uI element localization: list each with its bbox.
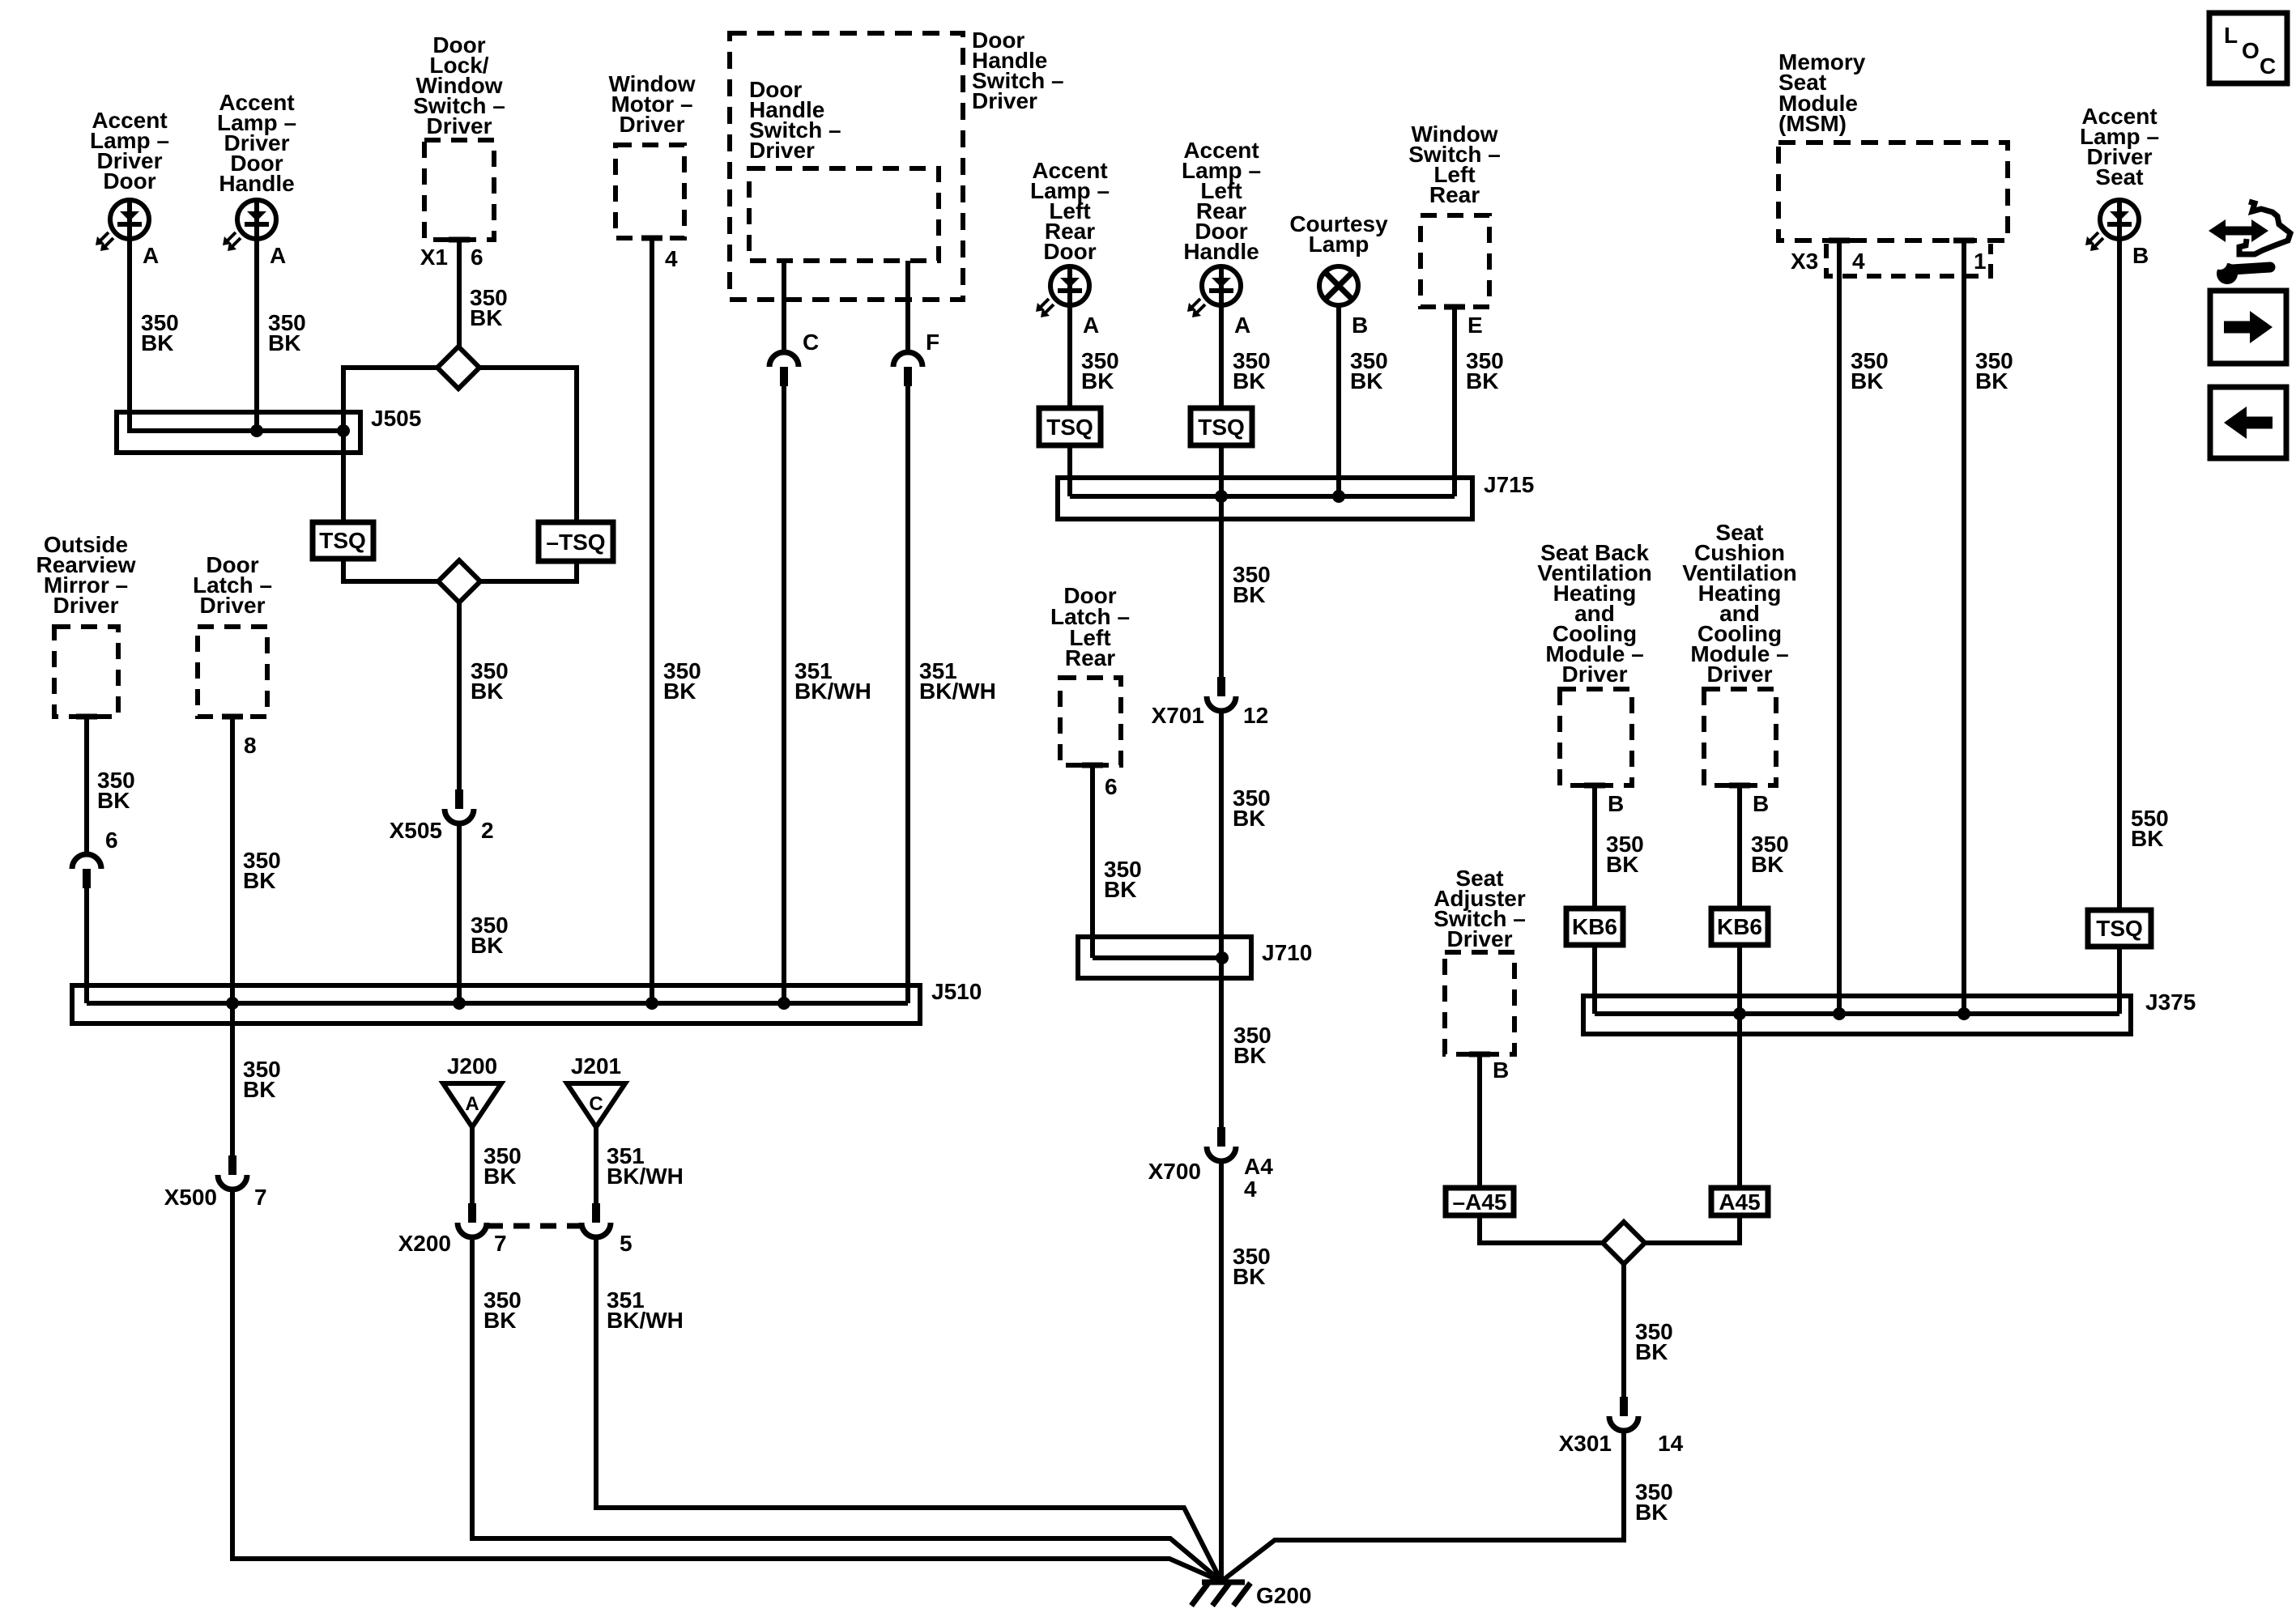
ground hatch 1 (1191, 1583, 1208, 1606)
svg-text:Seat: Seat (2095, 164, 2143, 189)
wire TSQ right to J375 (2117, 947, 2122, 1014)
fuse box A45 (1711, 1188, 1768, 1215)
svg-text:C: C (589, 1093, 603, 1115)
svg-text:6: 6 (1105, 774, 1118, 799)
splice diamond S505b (438, 560, 480, 602)
svg-text:TSQ: TSQ (2096, 916, 2143, 941)
inline connector mirror 6 (72, 854, 101, 869)
connector J505 box (117, 412, 360, 453)
LOC legend box (2209, 13, 2287, 83)
wire A45 to diamond3 (1645, 1215, 1740, 1243)
svg-text:Driver: Driver (1447, 926, 1513, 951)
svg-text:BK: BK (1233, 1264, 1265, 1289)
seat cushion ventilation module dashed box (1704, 689, 1776, 785)
inline connector X505 (455, 789, 463, 809)
svg-text:BK: BK (471, 933, 503, 958)
svg-text:5: 5 (620, 1231, 633, 1256)
svg-text:J201: J201 (571, 1053, 621, 1079)
fuse box TSQ left (313, 522, 373, 559)
wire diamond2 to X505 (457, 602, 462, 789)
wire adjuster to -A45 (1477, 1054, 1482, 1188)
junction dot J510/C (777, 997, 790, 1010)
junction dot J510/X505 (453, 997, 466, 1010)
svg-text:BK: BK (1975, 368, 2008, 394)
wire DL5 to TSQ (2117, 239, 2122, 910)
svg-text:BK: BK (1233, 806, 1265, 831)
svg-text:Handle: Handle (219, 171, 294, 196)
wire mirror to J510 (84, 888, 89, 1003)
svg-text:Door: Door (103, 168, 155, 194)
wire TSQ to diamond2 (343, 559, 438, 581)
wire mirror-6 upper (84, 717, 89, 855)
MSM X3 connector dashed box (1826, 244, 1991, 276)
J710 bus wire (1093, 955, 1222, 960)
wire motor-4 to J510 (650, 238, 654, 1003)
svg-text:(MSM): (MSM) (1778, 111, 1847, 136)
svg-text:BK/WH: BK/WH (607, 1164, 684, 1189)
wire seat cushion to KB6 (1737, 785, 1742, 908)
pin tick latch LR-6 (1082, 763, 1103, 768)
svg-text:J200: J200 (447, 1053, 497, 1079)
svg-text:J715: J715 (1484, 472, 1534, 497)
svg-text:B: B (2132, 243, 2149, 268)
svg-text:BK: BK (1851, 368, 1883, 394)
svg-text:6: 6 (105, 828, 118, 853)
connector J715 box (1058, 478, 1472, 519)
junction dot J505/DL2 (250, 424, 263, 437)
wire TSQ DL4 to J715 (1219, 445, 1224, 496)
junction dot J715/DL4 (1215, 490, 1228, 503)
svg-text:B: B (1352, 313, 1368, 338)
svg-text:Driver: Driver (972, 88, 1037, 113)
svg-text:A: A (143, 243, 159, 268)
svg-text:BK: BK (1751, 852, 1783, 877)
svg-text:X3: X3 (1791, 249, 1818, 274)
junction dot J375/X3-4 (1833, 1007, 1846, 1020)
pin tick B (seat back) (1584, 783, 1605, 789)
accent lamp DL1 - driver door (110, 200, 149, 239)
wire X200-7 to ground run (472, 1236, 1221, 1581)
junction dot J505/X1 (337, 424, 350, 437)
seat back ventilation module dashed box (1560, 689, 1632, 785)
ground hatch 3 (1233, 1583, 1250, 1606)
ground bar G200 (1202, 1580, 1245, 1585)
svg-text:7: 7 (254, 1185, 267, 1210)
svg-text:J510: J510 (931, 979, 982, 1004)
svg-text:J375: J375 (2145, 989, 2196, 1015)
memory seat module dashed box (1778, 143, 2008, 240)
svg-text:BK: BK (141, 330, 173, 355)
svg-text:BK: BK (1233, 368, 1265, 394)
svg-text:B: B (1493, 1057, 1509, 1083)
svg-text:4: 4 (1852, 249, 1865, 274)
wire X3-4 to J375 (1837, 240, 1842, 1014)
svg-text:BK: BK (470, 305, 502, 330)
svg-text:Driver: Driver (53, 593, 119, 618)
svg-text:KB6: KB6 (1572, 914, 1617, 939)
window switch left rear dashed box (1421, 215, 1489, 307)
wire J201 to X200-5 (594, 1127, 598, 1203)
wire diamond3 to X301 (1621, 1264, 1626, 1397)
seat adjuster switch dashed box (1445, 952, 1514, 1054)
wire E1 to J715 (1336, 305, 1341, 496)
svg-text:X200: X200 (398, 1231, 451, 1256)
svg-text:7: 7 (494, 1231, 507, 1256)
svg-text:4: 4 (1244, 1177, 1257, 1202)
pin tick X1-6 (449, 237, 470, 243)
wire DL2-A to J505 (254, 239, 259, 431)
pin tick X3-1 (1953, 238, 1974, 244)
inline connector X701 (1217, 677, 1225, 696)
svg-text:X500: X500 (164, 1185, 217, 1210)
svg-text:L: L (2224, 23, 2238, 48)
wire J200 to X200-7 (470, 1127, 475, 1203)
power splice J201 triangle (567, 1083, 625, 1127)
svg-text:Driver: Driver (620, 112, 685, 137)
wire pin F upper (905, 261, 910, 353)
svg-text:BK: BK (2131, 826, 2163, 851)
door handle switch driver outer dashed box (730, 33, 963, 300)
svg-text:O: O (2242, 38, 2260, 63)
wire X700 to G200 (1219, 1160, 1224, 1581)
svg-text:Driver: Driver (1562, 662, 1628, 687)
wire F to J510 (905, 386, 910, 1003)
svg-text:BK/WH: BK/WH (607, 1308, 684, 1333)
svg-text:J710: J710 (1262, 940, 1312, 965)
wire -A45 to diamond3 (1480, 1215, 1603, 1243)
svg-text:B: B (1753, 791, 1769, 816)
wire diamond to -TSQ (479, 368, 577, 522)
wire TSQ to J715 (1067, 445, 1072, 496)
wire C to J510 (782, 386, 786, 1003)
pin tick X3-4 (1829, 238, 1850, 244)
accent lamp DL2 - driver door handle (237, 200, 276, 239)
connector J710 box (1078, 937, 1251, 978)
svg-text:X701: X701 (1152, 703, 1204, 728)
svg-text:1: 1 (1974, 249, 1987, 274)
inline connector X500 (228, 1155, 236, 1175)
accent lamp DL3 - left rear door (1050, 266, 1089, 305)
fuse box -A45 (1446, 1188, 1514, 1215)
svg-text:Door: Door (1043, 239, 1096, 264)
wire X200-5 to ground run (596, 1236, 1221, 1581)
door latch driver dashed box (198, 627, 267, 717)
svg-text:J505: J505 (371, 406, 421, 431)
svg-text:G200: G200 (1256, 1583, 1312, 1608)
hand outline icon (2239, 202, 2290, 254)
svg-text:A4: A4 (1244, 1154, 1273, 1179)
svg-text:A: A (270, 243, 286, 268)
svg-text:4: 4 (665, 246, 678, 271)
svg-text:BK: BK (1635, 1500, 1668, 1525)
connector X200 dashed link (487, 1223, 581, 1229)
pin tick E (window switch) (1444, 304, 1465, 310)
fuse box KB6 left (1566, 908, 1623, 945)
inline connector X700 (1217, 1127, 1225, 1147)
svg-text:BK/WH: BK/WH (919, 679, 996, 704)
svg-text:BK: BK (1081, 368, 1114, 394)
wire KB6 to J375 (1592, 945, 1597, 1014)
svg-text:2: 2 (481, 818, 494, 843)
fuse box TSQ (DL4) (1191, 408, 1252, 445)
inline connector C (769, 352, 799, 367)
svg-text:Rear: Rear (1429, 182, 1480, 207)
accent lamp DL5 - driver seat (2100, 200, 2139, 239)
junction dot J715/E1 (1332, 490, 1345, 503)
svg-text:BK: BK (1606, 852, 1638, 877)
svg-text:X700: X700 (1148, 1159, 1201, 1184)
svg-text:X301: X301 (1559, 1431, 1612, 1456)
back arrow (2244, 417, 2273, 429)
svg-text:BK: BK (1104, 877, 1136, 902)
svg-text:F: F (926, 330, 939, 355)
svg-text:X505: X505 (390, 818, 442, 843)
wire latch LR to J710 (1090, 765, 1095, 958)
svg-text:BK: BK (97, 788, 130, 813)
svg-text:TSQ: TSQ (319, 528, 366, 553)
pin tick mirror-6 (76, 714, 97, 720)
inline connector X301 (1620, 1397, 1628, 1416)
svg-text:BK: BK (483, 1164, 516, 1189)
svg-text:BK: BK (1466, 368, 1498, 394)
svg-text:A: A (1083, 313, 1099, 338)
svg-text:Driver: Driver (200, 593, 266, 618)
svg-text:–A45: –A45 (1453, 1189, 1507, 1215)
wire latch-8 to X500 (230, 717, 235, 1155)
junction dot J510/motor (645, 997, 658, 1010)
wire DL4 to TSQ (1219, 305, 1224, 408)
power splice J200 triangle (443, 1083, 501, 1127)
svg-text:BK: BK (268, 330, 300, 355)
wire DL1-A to J505 (127, 239, 132, 431)
inline connector X200-5 (592, 1203, 600, 1223)
connector J375 box (1583, 996, 2131, 1034)
junction dot J510/latch (226, 997, 239, 1010)
wire X505 to J510 (457, 822, 462, 1003)
forward arrow box (2210, 291, 2286, 364)
wire DL3 to TSQ (1067, 305, 1072, 408)
svg-text:B: B (1608, 791, 1624, 816)
splice diamond S505a (437, 347, 479, 389)
svg-text:BK/WH: BK/WH (794, 679, 871, 704)
wire diamond to J505 (343, 368, 437, 522)
fuse box TSQ (DL3) (1039, 408, 1101, 445)
wire seat back to KB6 (1592, 785, 1597, 908)
svg-text:6: 6 (471, 245, 483, 270)
inline connector X200-7 (468, 1203, 476, 1223)
window motor dashed box (616, 145, 684, 238)
pin tick latch-8 (222, 714, 243, 720)
wire X3-1 to J375 (1962, 240, 1966, 1014)
wire E to J715 (1452, 307, 1457, 496)
svg-text:–TSQ: –TSQ (546, 530, 605, 555)
svg-text:X1: X1 (420, 245, 448, 270)
svg-text:A45: A45 (1719, 1189, 1760, 1215)
svg-text:KB6: KB6 (1717, 914, 1762, 939)
ground hatch 2 (1212, 1583, 1229, 1606)
J375 bus wire (1595, 1011, 2119, 1016)
back arrow box (2210, 387, 2286, 458)
wire X301 to G200 (1221, 1429, 1624, 1581)
svg-text:Lamp: Lamp (1309, 232, 1370, 257)
svg-text:BK: BK (483, 1308, 516, 1333)
J715 bus wire (1070, 494, 1455, 499)
wire KB6 right to A45 (1737, 945, 1742, 1188)
svg-text:BK: BK (243, 868, 275, 893)
wire X500 to ground run (232, 1188, 1221, 1581)
pin tick motor-4 (641, 236, 662, 241)
svg-text:TSQ: TSQ (1046, 415, 1093, 440)
svg-text:C: C (803, 330, 819, 355)
svg-text:BK: BK (243, 1077, 275, 1102)
J505 bus wire (130, 412, 343, 431)
svg-text:14: 14 (1658, 1431, 1684, 1456)
svg-text:BK: BK (663, 679, 696, 704)
outside rearview mirror dashed box (54, 627, 118, 717)
svg-text:TSQ: TSQ (1198, 415, 1245, 440)
svg-text:Driver: Driver (427, 113, 492, 138)
svg-text:Driver: Driver (749, 138, 815, 163)
junction dot J375/X3-1 (1957, 1007, 1970, 1020)
svg-text:E: E (1467, 313, 1483, 338)
door handle switch inner dashed box (749, 168, 939, 261)
svg-text:12: 12 (1243, 703, 1268, 728)
hand double arrow (2222, 227, 2255, 236)
wire X701 to X700 (1219, 709, 1224, 1127)
junction dot J710 (1216, 951, 1229, 964)
door latch left rear dashed box (1060, 678, 1121, 765)
J510 bus wire (87, 1001, 908, 1006)
svg-text:BK: BK (1635, 1339, 1668, 1364)
courtesy lamp E1 (1319, 266, 1358, 305)
wire pin C upper (782, 261, 786, 353)
splice diamond S375 (1603, 1222, 1645, 1264)
svg-text:BK: BK (1350, 368, 1382, 394)
svg-text:BK: BK (1233, 582, 1265, 607)
pin tick B (seat cushion) (1729, 783, 1750, 789)
svg-text:A: A (1234, 313, 1250, 338)
accent lamp DL4 - left rear door handle (1202, 266, 1241, 305)
pin tick B (adjuster) (1469, 1052, 1490, 1057)
svg-text:BK: BK (1233, 1043, 1266, 1068)
wire -TSQ to diamond2 (480, 561, 577, 581)
svg-text:Driver: Driver (1707, 662, 1773, 687)
svg-text:Handle: Handle (1183, 239, 1259, 264)
wrench icon (2217, 263, 2238, 284)
svg-text:8: 8 (244, 733, 257, 758)
svg-text:Rear: Rear (1065, 645, 1115, 670)
door lock/window switch S1 dashed box (424, 140, 494, 240)
forward arrow (2224, 321, 2252, 334)
wire X1-6 to splice diamond (457, 240, 462, 347)
svg-text:C: C (2260, 53, 2276, 79)
svg-text:BK: BK (471, 679, 503, 704)
fuse box -TSQ (539, 522, 613, 561)
fuse box KB6 right (1711, 908, 1768, 945)
inline connector F (893, 352, 922, 367)
junction dot J375/KB6-right (1733, 1007, 1746, 1020)
connector J510 box (72, 985, 920, 1023)
svg-text:A: A (465, 1093, 479, 1115)
wire J715 to X701 (1219, 496, 1224, 677)
fuse box TSQ right (2088, 910, 2151, 947)
